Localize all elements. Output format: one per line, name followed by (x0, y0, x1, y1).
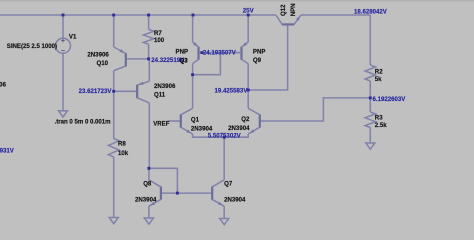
svg-text:23.621723V: 23.621723V (79, 88, 113, 95)
svg-text:2N3904: 2N3904 (191, 125, 213, 132)
svg-text:Q10: Q10 (97, 60, 109, 67)
svg-text:6.1922603V: 6.1922603V (373, 96, 407, 103)
svg-text:Q9: Q9 (253, 57, 262, 64)
svg-text:12.345931V: 12.345931V (0, 148, 15, 155)
svg-text:2N3904: 2N3904 (224, 196, 246, 203)
svg-text:R3: R3 (375, 114, 383, 121)
svg-text:SINE(25 2.5 1000): SINE(25 2.5 1000) (7, 43, 57, 50)
svg-text:2.5k: 2.5k (375, 122, 387, 129)
svg-text:.tran 0 5m 0 0.001m: .tran 0 5m 0 0.001m (55, 118, 112, 125)
svg-text:Q11: Q11 (154, 92, 166, 99)
svg-text:NPN: NPN (290, 3, 297, 16)
svg-text:5k: 5k (375, 76, 382, 83)
svg-text:5.5075302V: 5.5075302V (208, 132, 242, 139)
svg-text:18.628042V: 18.628042V (354, 9, 388, 16)
svg-text:Q2: Q2 (241, 116, 250, 123)
svg-text:24.193507V: 24.193507V (203, 50, 237, 57)
svg-text:2N3906: 2N3906 (0, 81, 7, 88)
svg-text:R2: R2 (375, 68, 383, 75)
svg-text:2N3904: 2N3904 (228, 125, 250, 132)
svg-text:10k: 10k (118, 150, 129, 157)
svg-text:VREF: VREF (153, 120, 170, 127)
svg-text:2N3906: 2N3906 (87, 51, 109, 58)
svg-text:R8: R8 (118, 140, 126, 147)
svg-text:PNP: PNP (176, 49, 189, 56)
svg-text:Q12: Q12 (280, 4, 287, 16)
svg-text:2N3906: 2N3906 (154, 83, 176, 90)
svg-text:Q8: Q8 (143, 181, 152, 188)
svg-text:Q7: Q7 (224, 181, 233, 188)
svg-text:Q3: Q3 (180, 57, 189, 64)
svg-text:V1: V1 (69, 33, 77, 40)
svg-text:2N3904: 2N3904 (135, 196, 157, 203)
svg-text:100: 100 (154, 37, 165, 44)
svg-text:25V: 25V (243, 7, 255, 14)
svg-text:PNP: PNP (253, 49, 266, 56)
svg-text:Q1: Q1 (191, 117, 200, 124)
svg-text:19.425583V: 19.425583V (215, 87, 249, 94)
